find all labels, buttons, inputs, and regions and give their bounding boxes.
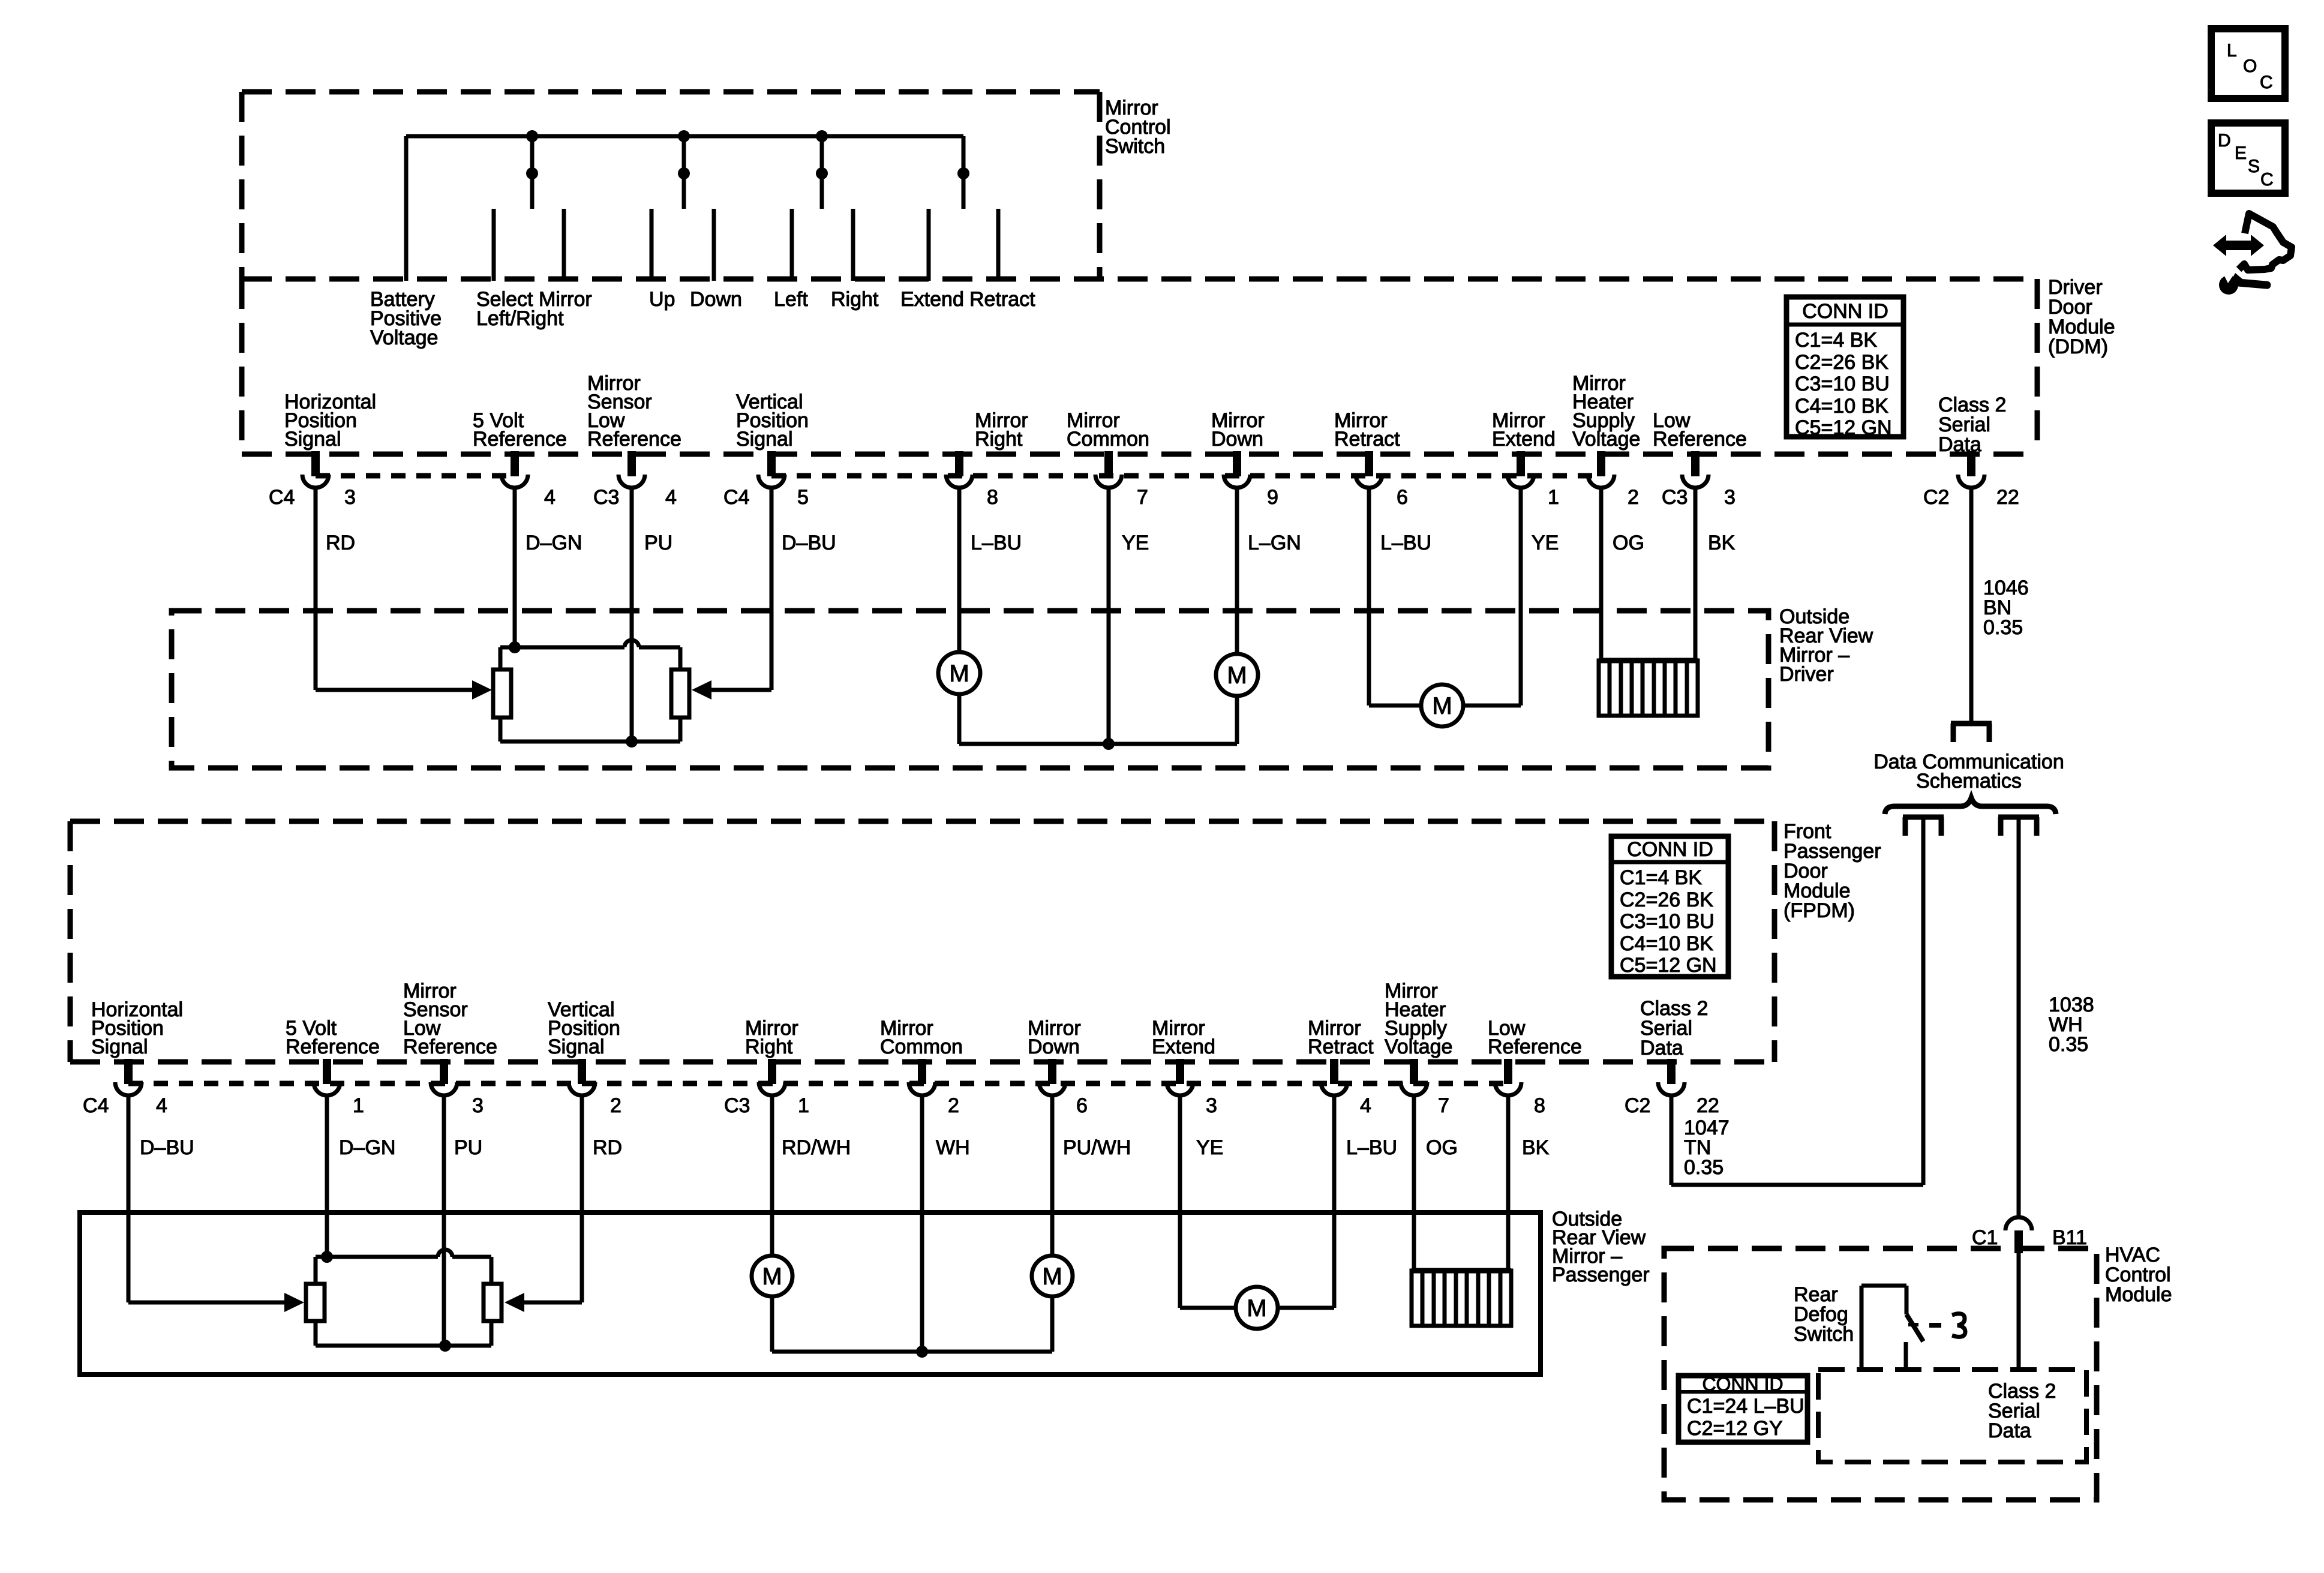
svg-text:3: 3 <box>1206 1094 1217 1117</box>
svg-text:WH: WH <box>936 1136 970 1159</box>
wire color label YE <box>1122 532 1149 554</box>
wire horizontal RD to wiper (passenger) <box>505 1293 582 1312</box>
wire D–BU FPDM horizontal position signal <box>127 1095 131 1302</box>
svg-text:6: 6 <box>1397 486 1408 509</box>
svg-text:Signal: Signal <box>91 1035 148 1058</box>
pin FPDM class 2 serial data connector <box>1658 1059 1685 1095</box>
svg-text:OG: OG <box>1426 1136 1458 1159</box>
wire color label D–BU <box>782 532 836 554</box>
outside rear view mirror passenger box (solid) <box>80 1212 1541 1374</box>
svg-text:L–BU: L–BU <box>1380 532 1431 554</box>
front passenger door module box (dashed) <box>70 821 1774 1062</box>
switch contact up stub <box>650 209 654 281</box>
label HVAC Control Module <box>2105 1244 2172 1306</box>
label Mirror Right (FPDM pin) <box>745 1017 798 1058</box>
label Class 2 Serial Data (FPDM) <box>1640 997 1708 1059</box>
label Rear Defog Switch <box>1794 1283 1854 1346</box>
svg-text:L–BU: L–BU <box>971 532 1022 554</box>
pin designator C3 (FPDM mirror right) <box>724 1094 750 1117</box>
label Mirror Retract (DDM pin) <box>1334 409 1400 451</box>
wire select-switch common drop <box>530 136 535 209</box>
svg-text:2: 2 <box>1628 486 1639 509</box>
FPDM inline connector dotted line <box>128 1081 1508 1086</box>
svg-text:L–BU: L–BU <box>1346 1136 1397 1159</box>
svg-text:C3=10 BU: C3=10 BU <box>1795 373 1890 395</box>
label Mirror Sensor Low Reference (DDM pin) <box>587 372 681 451</box>
wire color label OG <box>1613 532 1644 554</box>
label Mirror Right (DDM pin) <box>975 409 1028 451</box>
svg-text:1: 1 <box>353 1094 364 1117</box>
switch contact right stub <box>851 209 855 281</box>
svg-text:22: 22 <box>1996 486 2019 509</box>
wire PU FPDM mirror sensor low reference <box>442 1095 446 1346</box>
svg-text:CONN ID: CONN ID <box>1802 300 1888 323</box>
pin number 8 (DDM mirror right) <box>987 486 998 509</box>
svg-text:RD/WH: RD/WH <box>782 1136 851 1159</box>
pin number 8 (FPDM low reference) <box>1534 1094 1545 1117</box>
wire M1 bottom to common rail <box>957 694 962 744</box>
svg-text:Extend: Extend <box>1152 1035 1215 1058</box>
label Select Mirror Left/Right <box>476 288 592 330</box>
wire 1047 TN class 2 serial data <box>1671 1095 1923 1185</box>
label Driver Door Module (DDM) <box>2048 276 2115 358</box>
pin number 9 (DDM mirror down) <box>1267 486 1278 509</box>
svg-text:8: 8 <box>987 486 998 509</box>
driver door module box (dashed) <box>242 279 2037 454</box>
svg-text:YE: YE <box>1122 532 1149 554</box>
svg-text:M: M <box>1227 662 1247 689</box>
wire L–BU FPDM mirror retract <box>1332 1095 1337 1308</box>
svg-text:C: C <box>2260 73 2273 92</box>
svg-text:OG: OG <box>1613 532 1644 554</box>
off-page connector fork (1046 BN) <box>1951 724 1992 742</box>
svg-text:BK: BK <box>1708 532 1736 554</box>
label Mirror Control Switch <box>1105 97 1171 158</box>
potentiometer wiper right (driver vertical) <box>671 670 689 718</box>
outside rear view mirror driver box (dashed) <box>172 611 1768 768</box>
svg-text:Data: Data <box>1988 1419 2031 1442</box>
svg-text:22: 22 <box>1697 1094 1719 1117</box>
svg-text:Extend: Extend <box>900 288 964 311</box>
wire color label RD (FPDM) <box>593 1136 622 1159</box>
svg-text:C3: C3 <box>1662 486 1688 509</box>
pin number 3 (DDM low reference) <box>1724 486 1736 509</box>
svg-text:B11: B11 <box>2052 1226 2087 1249</box>
svg-text:C: C <box>2260 170 2274 190</box>
label Extend <box>900 288 964 311</box>
pin designator C3 (DDM mirror sensor low reference) <box>593 486 619 509</box>
HVAC CONN ID table <box>1679 1373 1807 1442</box>
wire PU DDM mirror sensor low reference <box>630 488 634 742</box>
pin FPDM mirror extend connector <box>1167 1059 1193 1095</box>
pin DDM mirror right connector <box>946 451 972 488</box>
svg-text:S: S <box>2248 157 2260 176</box>
svg-text:C2=12 GY: C2=12 GY <box>1687 1417 1783 1440</box>
svg-text:C2=26 BK: C2=26 BK <box>1620 888 1713 911</box>
pin designator C4 (DDM vertical position signal) <box>723 486 749 509</box>
svg-text:Right: Right <box>831 288 879 311</box>
wire L-BU to M3 left (driver) <box>1369 704 1421 708</box>
wire RD DDM horizontal position signal <box>314 488 318 690</box>
pin designator C2 (DDM) <box>1923 486 1949 509</box>
wire L–GN DDM mirror down <box>1235 488 1239 654</box>
label Outside Rear View Mirror - Passenger <box>1552 1208 1650 1286</box>
pin DDM horizontal position signal connector <box>302 451 329 488</box>
pin DDM 5 volt reference connector <box>502 451 528 488</box>
potentiometer wiper left (passenger horizontal) <box>306 1284 325 1321</box>
wire color label YE <box>1532 532 1559 554</box>
node extend/retract common <box>957 167 969 179</box>
node bus junction select <box>526 130 538 142</box>
node bus junction left/right <box>816 130 828 142</box>
DDM / switch boundary dashed line <box>242 277 2037 282</box>
svg-text:C4: C4 <box>83 1094 109 1117</box>
pin FPDM mirror right connector <box>759 1059 785 1095</box>
svg-text:C5=12 GN: C5=12 GN <box>1620 954 1717 977</box>
label Mirror Common (DDM pin) <box>1067 409 1149 451</box>
pin designator C3 (DDM low reference) <box>1662 486 1688 509</box>
svg-text:Switch: Switch <box>1794 1323 1854 1346</box>
node D-GN to pot top (passenger) <box>321 1251 333 1263</box>
node bus junction up/down <box>678 130 690 142</box>
pin designator C1 (HVAC) <box>1972 1226 1998 1249</box>
wire driver motor common rail <box>959 742 1237 746</box>
svg-text:C4=10 BK: C4=10 BK <box>1620 932 1713 955</box>
svg-text:C4: C4 <box>269 486 295 509</box>
pin number 3 (DDM horizontal position signal) <box>344 486 356 509</box>
pin number 6 (DDM mirror retract) <box>1397 486 1408 509</box>
svg-text:PU/WH: PU/WH <box>1063 1136 1131 1159</box>
label 5 Volt Reference (DDM pin) <box>473 409 567 451</box>
label Mirror Heater Supply Voltage (FPDM pin) <box>1385 980 1452 1058</box>
wire extend/retract common drop <box>962 136 966 209</box>
wire D–GN FPDM 5 volt reference <box>325 1095 329 1257</box>
svg-text:1: 1 <box>798 1094 809 1117</box>
wire battery feed vertical <box>404 136 409 281</box>
wire passenger motor common rail <box>772 1350 1052 1354</box>
DDM inline connector dotted line A <box>316 473 515 479</box>
pin number 2 (DDM mirror heater supply) <box>1628 486 1639 509</box>
off-page connector fork (to FPDM) <box>1903 817 1944 836</box>
svg-text:PU: PU <box>454 1136 482 1159</box>
svg-text:Passenger: Passenger <box>1552 1263 1650 1286</box>
switch contact down stub <box>712 209 716 281</box>
pin FPDM mirror common connector <box>909 1059 935 1095</box>
svg-text:CONN ID: CONN ID <box>1627 838 1713 861</box>
wire YE to M3 right (driver) <box>1463 704 1521 708</box>
label Data Communication Schematics <box>1873 751 2064 792</box>
svg-text:9: 9 <box>1267 486 1278 509</box>
wire YE DDM mirror common <box>1107 488 1111 744</box>
svg-text:2: 2 <box>610 1094 621 1117</box>
pin HVAC C1 B11 connector <box>2005 1217 2032 1253</box>
label Mirror Extend (FPDM pin) <box>1152 1017 1215 1058</box>
node select common <box>526 167 538 179</box>
pin FPDM mirror sensor low reference connector <box>431 1059 457 1095</box>
svg-text:PU: PU <box>644 532 672 554</box>
svg-text:6: 6 <box>1076 1094 1088 1117</box>
svg-text:M: M <box>762 1263 782 1290</box>
pin DDM mirror common connector <box>1095 451 1122 488</box>
svg-text:Signal: Signal <box>548 1035 605 1058</box>
label Horizontal Position Signal (FPDM pin) <box>91 998 183 1058</box>
node up/down common <box>678 167 690 179</box>
momentary contact symbol <box>1929 1314 1965 1337</box>
svg-text:Reference: Reference <box>286 1035 380 1058</box>
pin FPDM low reference connector <box>1495 1059 1521 1095</box>
wire OG DDM mirror heater supply <box>1599 488 1604 661</box>
svg-text:Reference: Reference <box>403 1035 497 1058</box>
svg-text:Voltage: Voltage <box>1572 428 1640 451</box>
svg-text:Right: Right <box>975 428 1023 451</box>
svg-text:5: 5 <box>797 486 809 509</box>
pin designator C4 (FPDM horizontal position signal) <box>83 1094 109 1117</box>
pin designator C2 (FPDM) <box>1625 1094 1650 1117</box>
svg-text:Data: Data <box>1640 1037 1683 1059</box>
label Front Passenger Door Module (FPDM) <box>1783 820 1881 922</box>
svg-text:Common: Common <box>880 1035 963 1058</box>
pin number 6 (FPDM mirror down) <box>1076 1094 1088 1117</box>
pin DDM mirror retract connector <box>1356 451 1382 488</box>
motor M mirror extend/retract (driver) <box>1421 685 1463 727</box>
off-page connector fork (to HVAC) <box>1998 817 2039 836</box>
wire PU/WH FPDM mirror down <box>1050 1095 1055 1256</box>
wire RD FPDM vertical position signal <box>580 1095 584 1302</box>
mirror heater element (passenger) <box>1412 1271 1511 1326</box>
wire switch supply bus <box>406 134 963 139</box>
pin number 4 (DDM mirror sensor low reference) <box>665 486 677 509</box>
wire YE to M3 left (passenger) <box>1180 1306 1236 1310</box>
pin number 1 (DDM mirror extend) <box>1548 486 1559 509</box>
label Mirror Common (FPDM pin) <box>880 1017 963 1058</box>
HVAC control module box (dashed) <box>1664 1248 2097 1500</box>
wire left/right common drop <box>820 136 824 209</box>
svg-text:Reference: Reference <box>587 428 681 451</box>
label Mirror Sensor Low Reference (FPDM pin) <box>403 980 497 1058</box>
svg-text:Retract: Retract <box>1308 1035 1374 1058</box>
wire color label BK (FPDM) <box>1522 1136 1550 1159</box>
svg-text:(DDM): (DDM) <box>2048 335 2108 358</box>
node D-GN to pot top <box>509 641 521 653</box>
svg-text:C2=26 BK: C2=26 BK <box>1795 351 1888 374</box>
label Mirror Extend (DDM pin) <box>1492 409 1556 451</box>
svg-text:D: D <box>2218 131 2231 151</box>
svg-text:0.35: 0.35 <box>2049 1033 2088 1056</box>
svg-text:Voltage: Voltage <box>1385 1035 1452 1058</box>
svg-text:Up: Up <box>649 288 675 311</box>
svg-text:Down: Down <box>1211 428 1263 451</box>
wire color label WH (FPDM) <box>936 1136 970 1159</box>
svg-text:Switch: Switch <box>1105 135 1165 158</box>
pin designator C4 (DDM horizontal position signal) <box>269 486 295 509</box>
wire color label L–GN <box>1248 532 1301 554</box>
label Class 2 Serial Data (HVAC) <box>1988 1380 2056 1442</box>
pin number 7 (DDM mirror common) <box>1137 486 1148 509</box>
svg-text:Left/Right: Left/Right <box>476 307 564 330</box>
svg-text:Voltage: Voltage <box>370 326 438 349</box>
svg-text:Module: Module <box>2105 1283 2172 1306</box>
wire class 2 serial data to FPDM <box>1921 817 1926 1185</box>
pin FPDM mirror down connector <box>1039 1059 1065 1095</box>
svg-text:BK: BK <box>1522 1136 1550 1159</box>
motor M mirror right/left (passenger horizontal) <box>752 1256 792 1296</box>
label Mirror Heater Supply Voltage (DDM pin) <box>1572 372 1640 451</box>
label Right <box>831 288 879 311</box>
label Vertical Position Signal (DDM pin) <box>736 391 809 451</box>
svg-text:M: M <box>949 661 969 687</box>
pin number B11 (HVAC) <box>2052 1226 2087 1249</box>
svg-text:RD: RD <box>593 1136 622 1159</box>
label Outside Rear View Mirror - Driver <box>1779 605 1873 686</box>
DDM inline connector dotted line B <box>771 473 1601 479</box>
svg-text:C2: C2 <box>1625 1094 1650 1117</box>
pin number 1 (FPDM 5 volt reference) <box>353 1094 364 1117</box>
pin number 22 (FPDM) <box>1697 1094 1719 1117</box>
wire 1046 BN class 2 serial data <box>1969 488 1974 724</box>
svg-text:Extend: Extend <box>1492 428 1556 451</box>
pin DDM mirror extend connector <box>1508 451 1534 488</box>
svg-text:1: 1 <box>1548 486 1559 509</box>
pin DDM mirror heater supply connector <box>1588 451 1614 488</box>
potentiometer wiper right (passenger vertical) <box>484 1284 502 1321</box>
svg-text:D–BU: D–BU <box>782 532 836 554</box>
wire horizontal D-BU to wiper <box>692 680 771 700</box>
pin DDM class 2 serial data connector <box>1958 451 1984 488</box>
svg-text:Reference: Reference <box>473 428 567 451</box>
svg-text:M: M <box>1247 1295 1266 1322</box>
pin number 7 (FPDM mirror heater supply) <box>1438 1094 1449 1117</box>
pin FPDM 5 volt reference connector <box>314 1059 340 1095</box>
wire label 1046 BN 0.35 <box>1983 577 2029 639</box>
node PU to pot bottom (passenger) <box>439 1340 451 1352</box>
svg-text:(FPDM): (FPDM) <box>1783 899 1855 922</box>
wire color label L–BU <box>971 532 1022 554</box>
svg-text:C5=12 GN: C5=12 GN <box>1795 416 1892 439</box>
svg-text:Schematics: Schematics <box>1916 770 2022 792</box>
svg-text:M: M <box>1432 693 1452 719</box>
wire B11 into HVAC <box>2017 1253 2021 1370</box>
motor M mirror up/down (driver vertical) <box>1216 654 1258 696</box>
svg-text:D–BU: D–BU <box>140 1136 194 1159</box>
pin number 3 (FPDM mirror sensor low reference) <box>472 1094 484 1117</box>
node PU to pot bottom <box>626 736 638 748</box>
wire 1038 WH class 2 serial data <box>2017 817 2021 1217</box>
svg-text:4: 4 <box>665 486 677 509</box>
label Low Reference (DDM pin) <box>1653 409 1747 451</box>
pin DDM low reference connector <box>1682 451 1709 488</box>
svg-text:3: 3 <box>1724 486 1736 509</box>
svg-text:8: 8 <box>1534 1094 1545 1117</box>
label Down <box>690 288 742 311</box>
svg-text:CONN ID: CONN ID <box>1702 1373 1783 1395</box>
svg-text:3: 3 <box>472 1094 484 1117</box>
pin DDM mirror sensor low reference connector <box>618 451 645 488</box>
node left/right common <box>816 167 828 179</box>
label Horizontal Position Signal (DDM pin) <box>284 391 376 451</box>
svg-text:Signal: Signal <box>284 428 341 451</box>
pin FPDM vertical position signal connector <box>569 1059 595 1095</box>
svg-text:7: 7 <box>1137 486 1148 509</box>
svg-text:C3: C3 <box>593 486 619 509</box>
wire D–GN DDM 5 volt reference <box>513 488 517 647</box>
label Vertical Position Signal (FPDM pin) <box>548 998 620 1058</box>
potentiometer wiper left (driver horizontal) <box>493 670 511 718</box>
pin number 2 (FPDM vertical position signal) <box>610 1094 621 1117</box>
wire color label D–BU (FPDM) <box>140 1136 194 1159</box>
svg-text:E: E <box>2235 143 2247 163</box>
svg-text:Common: Common <box>1067 428 1149 451</box>
label Class 2 Serial Data (DDM) <box>1938 394 2006 456</box>
label Mirror Down (DDM pin) <box>1211 409 1265 451</box>
wire color label BK <box>1708 532 1736 554</box>
svg-text:Reference: Reference <box>1488 1035 1582 1058</box>
wire color label D–GN <box>526 532 582 554</box>
svg-text:L–GN: L–GN <box>1248 532 1301 554</box>
wire color label L–BU <box>1380 532 1431 554</box>
motor M mirror extend/retract (passenger) <box>1236 1287 1278 1329</box>
wire L-BU to M3 right (passenger) <box>1278 1306 1334 1310</box>
svg-text:C1: C1 <box>1972 1226 1998 1249</box>
brace data communication <box>1885 798 2056 814</box>
wire color label PU <box>644 532 672 554</box>
svg-text:YE: YE <box>1196 1136 1223 1159</box>
svg-text:Right: Right <box>745 1035 793 1058</box>
svg-text:4: 4 <box>1360 1094 1371 1117</box>
node WH common junction (passenger) <box>916 1346 928 1358</box>
pin FPDM horizontal position signal connector <box>115 1059 142 1095</box>
LOC icon box <box>2211 29 2285 98</box>
switch contact retract stub <box>996 209 1001 281</box>
DESC icon box <box>2211 123 2285 193</box>
svg-text:0.35: 0.35 <box>1983 616 2023 639</box>
svg-text:M: M <box>1042 1263 1062 1290</box>
wire BK DDM low reference <box>1694 488 1698 661</box>
pin DDM vertical position signal connector <box>758 451 785 488</box>
switch contact extend stub <box>927 209 931 281</box>
label Low Reference (FPDM pin) <box>1488 1017 1582 1058</box>
switch contact left stub <box>790 209 794 281</box>
node YE common junction (driver) <box>1103 738 1115 750</box>
svg-text:C4=10 BK: C4=10 BK <box>1795 395 1888 418</box>
class 2 serial data inner box (dashed) <box>1818 1370 2086 1462</box>
pin DDM mirror down connector <box>1224 451 1250 488</box>
switch contact select-right stub <box>562 209 566 281</box>
pin number 4 (FPDM horizontal position signal) <box>156 1094 167 1117</box>
wire color label PU/WH (FPDM) <box>1063 1136 1131 1159</box>
svg-text:Retract: Retract <box>1334 428 1400 451</box>
svg-text:4: 4 <box>156 1094 167 1117</box>
wire YE DDM mirror extend <box>1519 488 1523 706</box>
wire color label RD/WH (FPDM) <box>782 1136 851 1159</box>
wire D–BU DDM vertical position signal <box>770 488 774 690</box>
rear defog switch <box>1861 1286 1923 1370</box>
wire M2 bottom to rail (passenger) <box>1050 1296 1055 1352</box>
svg-text:C3: C3 <box>724 1094 750 1117</box>
motor M mirror up/down (passenger vertical) <box>1032 1256 1073 1296</box>
svg-text:2: 2 <box>948 1094 959 1117</box>
mirror control switch box (dashed) <box>242 92 1100 279</box>
wire YE FPDM mirror extend <box>1178 1095 1182 1308</box>
wire color label YE (FPDM) <box>1196 1136 1223 1159</box>
FPDM CONN ID table <box>1611 836 1728 977</box>
label 5 Volt Reference (FPDM pin) <box>286 1017 380 1058</box>
pin number 2 (FPDM mirror common) <box>948 1094 959 1117</box>
pin number 5 (DDM vertical position signal) <box>797 486 809 509</box>
pin FPDM mirror heater supply connector <box>1401 1059 1427 1095</box>
potentiometer body (driver) <box>500 640 680 742</box>
wire L–BU DDM mirror right <box>957 488 962 652</box>
label Mirror Retract (FPDM pin) <box>1308 1017 1374 1058</box>
